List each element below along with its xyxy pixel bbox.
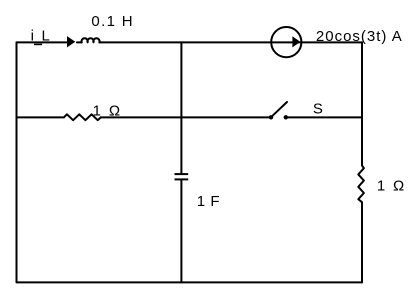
svg-text:L: L (42, 28, 50, 45)
svg-text:20cos(3t) A: 20cos(3t) A (316, 28, 403, 45)
svg-text:S: S (313, 101, 323, 118)
svg-text:i: i (31, 28, 34, 45)
svg-text:0.1 H: 0.1 H (91, 13, 134, 30)
svg-text:1 F: 1 F (197, 193, 220, 210)
svg-text:1 Ω: 1 Ω (377, 178, 406, 195)
svg-text:1 Ω: 1 Ω (93, 103, 122, 120)
